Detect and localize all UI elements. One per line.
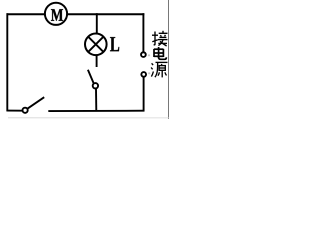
motor U1 circle (45, 3, 67, 25)
page scan edge artifact (148, 54, 150, 56)
switch S2 pivot (93, 83, 98, 88)
wire right upper (142, 13, 144, 52)
lamp L circle (85, 34, 107, 56)
switch S1 pivot (23, 108, 28, 113)
switch S1 blade (27, 97, 44, 109)
wire top-right segment (67, 13, 144, 15)
wire right lower (143, 77, 145, 111)
wire top-left segment (7, 13, 45, 15)
lamp L cross (88, 37, 103, 52)
wire lamp branch top (96, 13, 98, 34)
motor U1 letter M (51, 9, 63, 21)
wire lamp branch bottom (95, 89, 97, 111)
wire bottom-right segment (48, 110, 144, 112)
wire lamp branch stub (96, 55, 98, 67)
terminal 1 (141, 52, 146, 57)
label 源 (yuan) (151, 62, 167, 77)
label 接 (jie) (152, 31, 168, 46)
wire left side (6, 13, 8, 111)
label 电 (dian) (154, 47, 166, 59)
terminal 2 (141, 72, 146, 77)
switch S2 blade (88, 70, 94, 84)
label L (110, 37, 119, 51)
wire bottom-left segment (7, 110, 23, 112)
